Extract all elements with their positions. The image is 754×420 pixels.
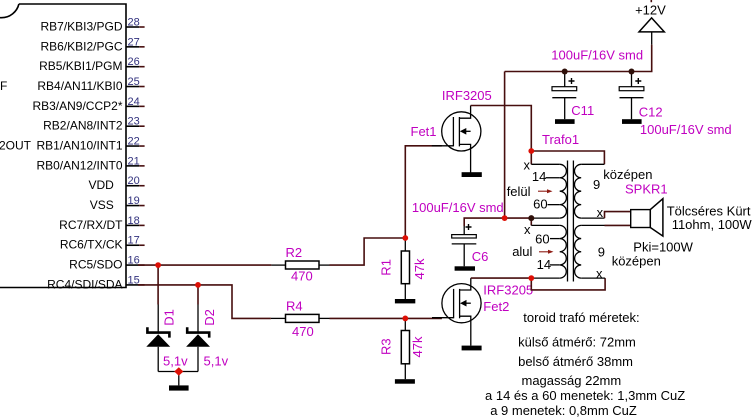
svg-text:2OUT: 2OUT — [0, 139, 32, 153]
wire trafo top-left bottom lead to center tap — [531, 217, 559, 219]
svg-text:középen: középen — [603, 167, 652, 182]
svg-text:21: 21 — [128, 155, 140, 167]
svg-text:R1: R1 — [379, 259, 394, 276]
svg-text:IRF3205: IRF3205 — [442, 88, 492, 103]
wire to ground (diodes) — [178, 372, 180, 386]
svg-text:RC4/SDI/SDA: RC4/SDI/SDA — [47, 277, 122, 291]
svg-text:5,1v: 5,1v — [163, 354, 188, 369]
ground (R3) — [395, 379, 415, 384]
pin 22 RB1/AN10/INT1 — [36, 136, 144, 153]
leader line 14 — [546, 177, 560, 179]
transformer Trafo1 primary top winding — [560, 164, 567, 218]
ground (C11) — [555, 119, 575, 124]
svg-text:VSS: VSS — [90, 198, 114, 212]
svg-text:D1: D1 — [162, 309, 177, 326]
svg-text:15: 15 — [128, 274, 140, 286]
pin 21 RB0/AN12/INT0 — [36, 155, 144, 172]
svg-text:toroid trafó méretek:: toroid trafó méretek: — [523, 310, 639, 325]
resistor R4 — [271, 314, 330, 322]
svg-text:Pki=100W: Pki=100W — [633, 239, 693, 254]
pin 23 RB2/AN8/INT2 — [43, 116, 144, 133]
transformer Trafo1 secondary bottom winding — [575, 225, 582, 278]
wire gate Fet2 — [405, 317, 442, 319]
resistor R1 — [401, 238, 409, 299]
svg-text:D2: D2 — [202, 309, 217, 326]
capacitor C11 — [552, 72, 577, 120]
svg-text:C12: C12 — [639, 105, 663, 120]
svg-text:R2: R2 — [286, 245, 303, 260]
svg-text:470: 470 — [291, 269, 313, 284]
resistor R3 — [401, 318, 409, 379]
svg-text:RB1/AN10/INT1: RB1/AN10/INT1 — [36, 139, 122, 153]
pin 15 RC4/SDI/SDA — [47, 274, 144, 291]
svg-text:RC7/RX/DT: RC7/RX/DT — [59, 218, 123, 232]
svg-text:Fet1: Fet1 — [411, 124, 437, 139]
wire to speaker top terminal — [605, 212, 631, 219]
pin 16 RC5/SDO — [69, 255, 144, 272]
pin 20 VDD — [88, 175, 144, 192]
diode D2 (zener 5,1v) — [179, 305, 210, 372]
arrow felül — [538, 189, 553, 193]
ground (Fet2 source) — [462, 346, 482, 351]
capacitor C12 — [619, 72, 644, 120]
transformer Trafo1 primary bottom winding — [560, 225, 567, 278]
svg-text:9: 9 — [598, 245, 605, 260]
wire center tap to bottom winding — [530, 218, 532, 225]
pin 26 RB5/KBI1/PGM — [39, 56, 144, 73]
junction node C12 top — [629, 69, 635, 75]
pin 17 RC6/TX/CK — [60, 235, 145, 252]
transistor Q Fet1 (IRF3205) — [432, 106, 481, 173]
svg-text:+12V: +12V — [635, 3, 666, 18]
junction node trafo top / Fet1 drain — [528, 148, 534, 154]
svg-text:23: 23 — [128, 116, 140, 128]
svg-text:5,1v: 5,1v — [204, 354, 229, 369]
svg-text:47k: 47k — [412, 258, 427, 279]
svg-text:alul: alul — [512, 244, 532, 259]
IC U1 body — [0, 4, 126, 288]
pin 25 RB4/AN11/KBI0 — [37, 76, 144, 93]
svg-text:Fet2: Fet2 — [483, 299, 509, 314]
svg-text:26: 26 — [128, 56, 140, 68]
wire secondary bottom winding top lead to speaker — [581, 224, 604, 226]
arrow alul — [539, 250, 554, 254]
wire gate Fet1 riser — [405, 146, 442, 238]
svg-text:27: 27 — [128, 36, 140, 48]
junction node R3/gate Fet2 — [402, 316, 408, 322]
wire D2 drop — [197, 285, 199, 305]
svg-text:47k: 47k — [410, 336, 425, 357]
svg-text:magasság 22mm: magasság 22mm — [522, 373, 622, 388]
transistor Q Fet2 (IRF3205) — [432, 278, 481, 346]
wire R2 to R1 junction (jog up) — [330, 238, 406, 265]
wire trafo bottom-left lead — [531, 277, 559, 279]
leader line 14 bottom — [550, 264, 560, 266]
svg-text:IRF3205: IRF3205 — [483, 282, 533, 297]
svg-text:28: 28 — [128, 17, 140, 29]
ground (R1) — [395, 299, 415, 303]
resistor R2 — [271, 261, 329, 269]
svg-text:középen: középen — [612, 254, 661, 269]
svg-text:C11: C11 — [571, 103, 594, 118]
wire to speaker bottom terminal — [605, 224, 631, 226]
svg-text:20: 20 — [128, 175, 140, 187]
junction node R1/gate Fet1 — [402, 235, 408, 241]
svg-text:x: x — [524, 222, 531, 237]
svg-text:9: 9 — [593, 177, 600, 192]
junction node trafo bottom / Fet2 drain — [528, 275, 534, 281]
wire secondary bottom winding bottom lead — [581, 277, 605, 279]
junction node +12V/C6 — [502, 215, 508, 221]
leader line 60 — [548, 204, 560, 206]
svg-text:RC6/TX/CK: RC6/TX/CK — [60, 238, 123, 252]
svg-text:RB4/AN11/KBI0: RB4/AN11/KBI0 — [37, 79, 122, 93]
svg-text:25: 25 — [128, 76, 140, 88]
wire secondary top winding top lead — [581, 163, 604, 165]
svg-text:R3: R3 — [379, 338, 394, 355]
pin 27 RB6/KBI2/PGC — [40, 36, 144, 53]
svg-text:RC5/SDO: RC5/SDO — [69, 258, 122, 272]
svg-text:RB0/AN12/INT0: RB0/AN12/INT0 — [36, 158, 122, 172]
svg-text:Trafo1: Trafo1 — [542, 132, 579, 147]
wire Fet2 drain to trafo bottom — [471, 277, 532, 279]
svg-text:60: 60 — [535, 232, 549, 247]
svg-text:100uF/16V smd: 100uF/16V smd — [551, 48, 643, 63]
wire Fet1 drain to trafo top — [471, 106, 532, 152]
pin 18 RC7/RX/DT — [59, 215, 144, 232]
pin 19 VSS — [90, 195, 145, 212]
wire trafo top to secondary top — [531, 151, 604, 164]
wire secondary top winding bottom lead — [581, 217, 604, 219]
svg-text:14: 14 — [532, 169, 546, 184]
svg-text:külső átmérő: 72mm: külső átmérő: 72mm — [518, 334, 636, 349]
svg-text:R4: R4 — [286, 298, 303, 313]
svg-text:60: 60 — [533, 196, 547, 211]
svg-text:19: 19 — [128, 195, 140, 207]
power +12V symbol — [639, 18, 664, 45]
svg-text:17: 17 — [128, 235, 140, 247]
wire detour to secondary bottom — [531, 278, 605, 290]
diode D1 (zener 5,1v) — [146, 305, 179, 372]
junction node pin16/D1 — [155, 262, 161, 268]
svg-text:11ohm, 100W: 11ohm, 100W — [672, 217, 753, 232]
pin 24 RB3/AN9/CCP2* — [32, 96, 144, 113]
junction node pin15/D2 — [195, 282, 201, 288]
transformer Trafo1 secondary top winding — [574, 164, 581, 218]
capacitor C6 — [452, 224, 477, 266]
svg-text:24: 24 — [128, 96, 140, 108]
svg-text:x: x — [596, 266, 603, 281]
ground (C6) — [455, 266, 475, 270]
svg-text:a 14 és a 60 menetek: 1,3mm Cu: a 14 és a 60 menetek: 1,3mm CuZ — [485, 388, 685, 403]
svg-text:14: 14 — [537, 257, 551, 272]
svg-text:16: 16 — [128, 255, 140, 267]
svg-text:470: 470 — [292, 324, 314, 339]
svg-text:x: x — [597, 205, 604, 220]
svg-text:felül: felül — [507, 184, 531, 199]
svg-text:22: 22 — [128, 136, 140, 148]
wire trafo top left lead — [530, 151, 532, 164]
transformer core — [568, 161, 574, 282]
pin 28 RB7/KBI3/PGD — [40, 17, 144, 34]
svg-text:RB3/AN9/CCP2*: RB3/AN9/CCP2* — [32, 99, 122, 113]
wire pin15 to corner and down to R4 — [138, 285, 271, 319]
svg-text:RB5/KBI1/PGM: RB5/KBI1/PGM — [39, 59, 122, 73]
svg-text:18: 18 — [128, 215, 140, 227]
svg-text:x: x — [524, 158, 531, 173]
svg-text:C6: C6 — [472, 249, 489, 264]
ground (diodes) — [169, 385, 189, 390]
speaker SPKR1 — [631, 199, 663, 236]
wire D1 drop — [157, 265, 159, 304]
junction node diodes/ground — [174, 367, 183, 376]
wire C6 branch — [464, 218, 504, 226]
wire R4 to R3 junction — [330, 317, 406, 319]
svg-text:a 9 menetek: 0,8mm CuZ: a 9 menetek: 0,8mm CuZ — [490, 403, 637, 418]
junction node C11 top — [562, 69, 568, 75]
svg-text:belső átmérő 38mm: belső átmérő 38mm — [518, 354, 633, 369]
svg-text:RB6/KBI2/PGC: RB6/KBI2/PGC — [40, 39, 122, 53]
svg-text:F: F — [0, 79, 7, 93]
ground (Fet1 source) — [462, 172, 482, 177]
wire +12V drop to center tap — [505, 72, 532, 219]
svg-text:RB2/AN8/INT2: RB2/AN8/INT2 — [43, 119, 123, 133]
wire +12V rail — [505, 45, 652, 72]
svg-text:VDD: VDD — [88, 178, 114, 192]
svg-text:RB7/KBI3/PGD: RB7/KBI3/PGD — [40, 20, 122, 34]
svg-text:100uF/16V smd: 100uF/16V smd — [640, 122, 732, 137]
ground (C12) — [622, 119, 642, 124]
svg-text:SPKR1: SPKR1 — [625, 181, 668, 196]
junction node center tap — [528, 215, 534, 221]
wire pin16 to R2 — [138, 264, 271, 266]
wire stub off-canvas top — [650, 0, 652, 2]
svg-text:100uF/16V smd: 100uF/16V smd — [412, 200, 504, 215]
leader line 60 bottom — [550, 238, 560, 240]
